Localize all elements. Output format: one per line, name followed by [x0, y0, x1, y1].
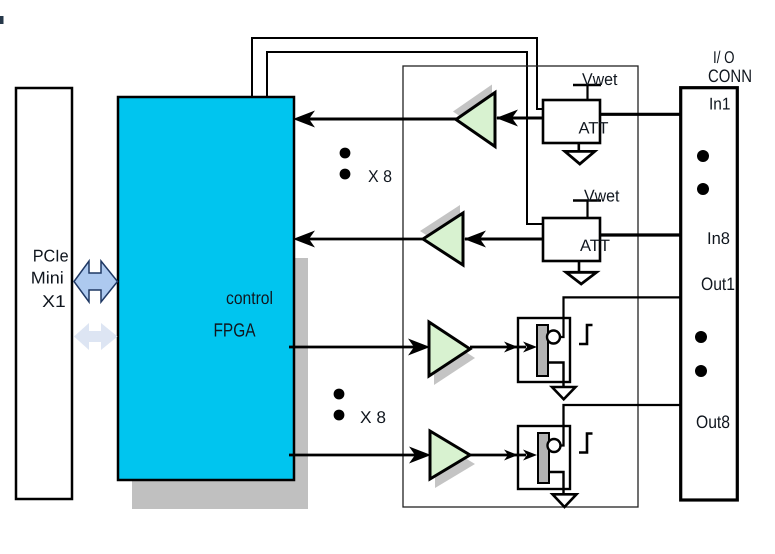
wire amp4 to switch2 — [470, 454, 526, 457]
switch S2 drain to ground — [549, 472, 564, 493]
switch S2 box — [518, 426, 570, 489]
wire ATT2 to amp2 — [465, 238, 543, 241]
switch S2 gate bar — [538, 433, 549, 483]
ground ATT1 — [577, 143, 580, 151]
svg-text:X 8: X 8 — [368, 167, 392, 186]
I/O CONN box — [681, 88, 738, 500]
ground ATT2 — [578, 261, 581, 272]
IO dots lower — [695, 331, 707, 343]
arrowhead at switch1 edge — [504, 342, 518, 353]
wire In8 to ATT2 — [600, 233, 685, 236]
wire amp1 to FPGA — [300, 118, 456, 121]
arrowhead at switch2 edge — [504, 450, 518, 461]
svg-text:Vwet: Vwet — [582, 70, 618, 89]
amp3 shadow — [434, 331, 475, 385]
ghost arrow shadow — [74, 323, 118, 350]
switch S2 bubble — [548, 439, 561, 452]
svg-text:Vwet: Vwet — [584, 187, 620, 206]
Vwet2 rail symbol — [573, 199, 601, 201]
wire loop FPGA to ATT2 control — [267, 52, 543, 224]
artifact mark top-left — [0, 16, 4, 24]
amp1 shadow — [453, 85, 492, 139]
switch S1 drain to ground — [548, 363, 564, 387]
svg-text:CONN: CONN — [708, 66, 752, 86]
arrowhead at switch1 gate — [523, 342, 537, 353]
wire loop FPGA to ATT1 control — [252, 38, 543, 109]
X8 dots upper — [340, 148, 351, 159]
ground switch S2 — [553, 494, 577, 507]
PCIe Mini X1 box — [16, 88, 72, 499]
wire FPGA to amp3 — [289, 346, 414, 349]
svg-text:In8: In8 — [707, 229, 730, 248]
wire amp3 to switch1 — [470, 346, 526, 349]
svg-text:I/ O: I/ O — [713, 48, 735, 67]
X8 dots lower — [334, 389, 345, 400]
amp U3 output driver — [429, 322, 470, 376]
switch S1 box — [518, 318, 570, 382]
svg-text:X 8: X 8 — [360, 408, 386, 427]
svg-text:X1: X1 — [42, 292, 65, 311]
FPGA drop shadow — [132, 258, 308, 509]
amp U1 input buffer — [456, 93, 495, 147]
wire FPGA to amp4 — [289, 454, 415, 457]
ATT2 box — [543, 218, 600, 261]
amp U4 output driver — [430, 431, 470, 479]
arrowhead into amp2 — [464, 231, 486, 248]
switch S1 output riser — [560, 297, 680, 337]
switch S1 gate bar — [537, 325, 548, 376]
wire ATT1 to amp1 — [497, 117, 543, 120]
svg-text:FPGA: FPGA — [214, 321, 256, 342]
Vwet1 rail symbol — [573, 84, 601, 86]
svg-text:ATT: ATT — [580, 237, 610, 255]
wire In1 to ATT1 — [600, 113, 686, 116]
arrowhead into FPGA row2 — [293, 231, 315, 248]
svg-text:PCIe: PCIe — [33, 247, 69, 266]
ground switch S1 — [552, 387, 576, 399]
control FPGA box — [118, 97, 294, 480]
amp4 shadow — [435, 440, 475, 488]
container box — [403, 66, 638, 507]
arrowhead into FPGA row1 — [293, 111, 315, 128]
svg-text:Out8: Out8 — [696, 412, 730, 432]
svg-text:Out1: Out1 — [701, 274, 735, 294]
arrowhead into amp3 — [408, 339, 430, 356]
arrowhead at switch2 gate — [523, 450, 537, 461]
pulse symbol S2 — [579, 434, 593, 453]
ATT1 box — [543, 100, 600, 143]
wire amp2 to FPGA — [300, 238, 423, 241]
blue bidirectional arrow PCIe-FPGA — [74, 261, 118, 302]
IO dots upper — [697, 150, 709, 162]
amp U2 input buffer — [423, 213, 463, 265]
pulse symbol S1 — [579, 325, 593, 344]
svg-text:control: control — [226, 288, 273, 308]
arrowhead into amp1 — [496, 110, 518, 127]
amp2 shadow — [420, 205, 460, 257]
svg-text:Mini: Mini — [31, 269, 64, 288]
switch S2 output riser — [561, 405, 681, 446]
switch S1 bubble — [547, 331, 560, 344]
svg-text:In1: In1 — [709, 95, 731, 114]
svg-text:ATT: ATT — [579, 120, 609, 138]
arrowhead into amp4 — [409, 447, 431, 464]
